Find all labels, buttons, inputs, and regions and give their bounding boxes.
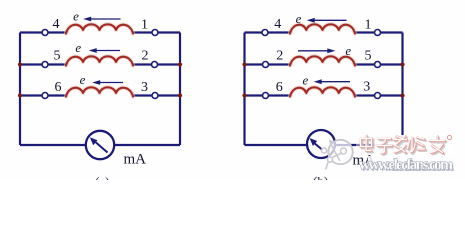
svg-text:www.elecfans.com: www.elecfans.com — [359, 157, 453, 174]
svg-text:e: e — [75, 40, 81, 55]
svg-text:6: 6 — [55, 80, 62, 95]
svg-text:e: e — [80, 72, 86, 87]
svg-text:5: 5 — [365, 49, 372, 64]
svg-text:e: e — [345, 43, 351, 58]
svg-text:e: e — [303, 73, 309, 88]
svg-text:4: 4 — [274, 17, 281, 32]
svg-text:1: 1 — [141, 17, 148, 32]
svg-text:6: 6 — [276, 80, 283, 95]
svg-text:2: 2 — [142, 49, 149, 64]
svg-text:3: 3 — [363, 80, 370, 95]
svg-text:2: 2 — [276, 49, 283, 64]
svg-text:1: 1 — [365, 17, 372, 32]
svg-text:(a): (a) — [95, 174, 109, 180]
svg-text:e: e — [296, 11, 302, 26]
svg-text:3: 3 — [141, 80, 148, 95]
svg-text:5: 5 — [54, 49, 61, 64]
svg-text:e: e — [73, 8, 79, 23]
svg-text:4: 4 — [53, 17, 60, 32]
svg-text:(b): (b) — [313, 174, 328, 181]
svg-text:mA: mA — [124, 151, 147, 167]
